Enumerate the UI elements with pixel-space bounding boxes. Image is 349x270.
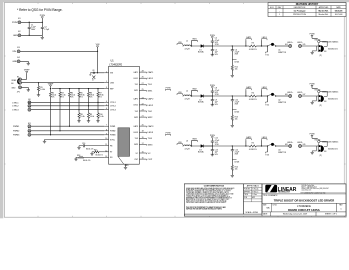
svg-text:7: 7 — [106, 125, 107, 127]
svg-text:8: 8 — [106, 129, 107, 131]
capacitor C5 ch1 — [211, 46, 213, 50]
turret CTRL1 — [28, 101, 31, 104]
capacitor C13 ch3 — [211, 146, 213, 150]
wire CTRL3 — [31, 109, 104, 111]
svg-text:1210: 1210 — [215, 144, 219, 146]
svg-text:APPROVED: APPROVED — [319, 6, 329, 9]
svg-text:10.0k: 10.0k — [99, 116, 103, 118]
transistor M1 — [317, 45, 319, 52]
transistor Q2 — [271, 93, 274, 96]
capacitor C8 DNI cross — [92, 76, 95, 79]
net flag TG1 at Q — [267, 46, 269, 52]
svg-text:1st Prototype: 1st Prototype — [293, 9, 305, 12]
turret PWM3 — [28, 133, 31, 136]
svg-text:OVP: OVP — [148, 159, 153, 161]
svg-text:GND: GND — [12, 61, 17, 63]
svg-text:L3: L3 — [186, 140, 188, 142]
svg-text:2.2µF: 2.2µF — [44, 29, 50, 31]
wire VIN rail — [20, 50, 97, 52]
svg-text:80.6k 1%: 80.6k 1% — [83, 160, 91, 162]
svg-text:E16: E16 — [285, 94, 288, 96]
svg-text:1.00k: 1.00k — [40, 89, 45, 91]
turret E1 PVIN — [18, 21, 21, 24]
svg-text:www.linear.com: www.linear.com — [302, 189, 313, 191]
svg-text:1%: 1% — [52, 97, 55, 99]
diode D4 gate ch1 — [318, 40, 320, 42]
wire R4 down — [69, 97, 71, 126]
svg-text:REV.: REV. — [339, 204, 343, 206]
svg-text:PVIN: PVIN — [210, 35, 215, 37]
ground below R14 — [231, 174, 234, 176]
svg-text:CAP2: CAP2 — [148, 98, 154, 101]
svg-text:R3: R3 — [252, 42, 254, 44]
svg-text:Wednesday, January 21, 2009: Wednesday, January 21, 2009 — [283, 214, 307, 216]
net flag SW2 stub — [191, 91, 193, 97]
svg-text:PCB: PCB — [244, 197, 247, 199]
ground M2 gate — [315, 96, 317, 101]
turret E3 VIN — [17, 50, 20, 53]
svg-text:L2: L2 — [186, 90, 188, 92]
turret LED3- — [299, 145, 302, 148]
capacitor C10 ch2 — [231, 96, 233, 100]
svg-text:LED1-: LED1- — [297, 42, 303, 44]
svg-text:B230A: B230A — [198, 51, 204, 54]
svg-text:SW1: SW1 — [148, 90, 154, 92]
svg-text:E14: E14 — [285, 44, 288, 46]
wire LED- to M ch2 — [302, 95, 319, 97]
turret CTRL3 — [28, 108, 31, 111]
ground at E7 — [27, 89, 30, 91]
net flag PVIN right ch3 — [311, 135, 313, 137]
wire LED- to M ch1 — [302, 45, 319, 47]
wire sense to Q ch1 — [256, 45, 267, 47]
svg-text:E2: E2 — [18, 31, 20, 33]
ground below C2 — [41, 35, 43, 37]
svg-text:LED2-: LED2- — [297, 92, 303, 94]
wire Q to LED+ ch2 — [276, 95, 289, 97]
svg-text:CAP1: CAP1 — [246, 36, 252, 39]
svg-text:1%: 1% — [99, 97, 102, 99]
net flag CAP1 — [246, 39, 252, 40]
ground M3 gate — [315, 146, 317, 151]
svg-text:PVIN: PVIN — [310, 34, 315, 36]
svg-text:LED3: LED3 — [262, 137, 268, 139]
svg-text:Si2343CDS-T1: Si2343CDS-T1 — [328, 148, 338, 150]
ground below R12 — [231, 74, 234, 76]
svg-text:C16: C16 — [82, 143, 85, 145]
revision history table — [268, 3, 346, 17]
ground below C9 — [211, 103, 214, 105]
svg-text:SW2: SW2 — [134, 117, 138, 119]
wire R3 down — [59, 97, 61, 131]
svg-text:IC NO.: IC NO. — [273, 204, 278, 206]
ground below C13 — [211, 153, 214, 155]
wire Q to LED+ ch1 — [276, 45, 289, 47]
svg-text:12: 12 — [105, 150, 107, 152]
svg-text:E11: E11 — [28, 123, 31, 125]
svg-text:0.20Ω 1%: 0.20Ω 1% — [249, 149, 257, 151]
svg-text:LED3: LED3 — [148, 132, 154, 134]
svg-text:LED3: LED3 — [235, 162, 240, 164]
ground below U1 — [124, 166, 127, 168]
svg-text:* Refer to QSG for PVIN Range.: * Refer to QSG for PVIN Range. — [17, 8, 63, 12]
svg-text:SW3: SW3 — [134, 144, 138, 146]
svg-text:19: 19 — [142, 137, 144, 139]
svg-text:PVIN: PVIN — [166, 133, 171, 135]
svg-text:PVIN: PVIN — [210, 85, 215, 87]
svg-text:PVIN: PVIN — [166, 88, 171, 90]
capacitor C14 ch3 — [231, 146, 233, 150]
via pad C8 — [93, 72, 95, 74]
transistor Q3 — [271, 143, 274, 146]
svg-text:LED3-: LED3- — [297, 142, 303, 144]
svg-text:80.6k 1%: 80.6k 1% — [86, 148, 94, 150]
svg-text:LED1: LED1 — [148, 78, 154, 80]
LT logo and address — [265, 185, 277, 193]
capacitor C9 ch2 — [211, 96, 213, 100]
ground below R13 — [231, 124, 234, 126]
svg-text:FMMT718: FMMT718 — [278, 102, 286, 104]
turret E4 GND — [17, 60, 20, 63]
svg-text:100V: 100V — [31, 29, 36, 31]
svg-text:10-21-08: 10-21-08 — [335, 14, 343, 16]
svg-text:4.7µH: 4.7µH — [184, 99, 190, 101]
net flag LED3 right — [262, 139, 268, 140]
svg-text:22: 22 — [142, 103, 144, 105]
svg-text:16: 16 — [142, 158, 144, 160]
ground at E4 — [27, 62, 30, 64]
svg-text:PVIN: PVIN — [210, 135, 215, 137]
turret LED1+ — [289, 45, 292, 48]
net flag LED2 right — [262, 89, 268, 90]
svg-text:L1: L1 — [186, 40, 188, 42]
inductor L1 — [184, 45, 191, 46]
capacitor C4 ch1 — [211, 39, 213, 42]
svg-text:C8: C8 — [92, 70, 94, 72]
svg-text:0.20Ω 1%: 0.20Ω 1% — [249, 49, 257, 51]
svg-text:FMMT718: FMMT718 — [278, 52, 286, 54]
svg-text:1%: 1% — [90, 97, 93, 99]
svg-text:10.0k: 10.0k — [80, 116, 84, 118]
svg-text:SCALE = NONE: SCALE = NONE — [246, 211, 259, 214]
svg-text:LED3: LED3 — [134, 132, 139, 134]
svg-text:PVIN: PVIN — [310, 84, 315, 86]
turret E7 GND — [19, 86, 22, 89]
inductor L2 — [184, 95, 191, 96]
net flag PVIN ch1 — [211, 37, 213, 39]
approvals column — [244, 184, 263, 214]
svg-text:3: 3 — [106, 87, 107, 89]
inductor L3 — [184, 145, 191, 146]
svg-text:SHEET 1 OF 1: SHEET 1 OF 1 — [325, 214, 337, 216]
wire Q to LED+ ch3 — [276, 145, 289, 147]
capacitor C12 ch3 — [211, 139, 213, 142]
turret PWM2 — [28, 129, 31, 132]
svg-text:17: 17 — [142, 143, 144, 145]
svg-text:15: 15 — [142, 152, 144, 154]
svg-text:E4: E4 — [17, 57, 19, 59]
svg-text:B230A: B230A — [198, 101, 204, 104]
svg-text:PVIN: PVIN — [310, 134, 315, 136]
svg-text:E6: E6 — [11, 83, 13, 85]
svg-text:SIZE: SIZE — [263, 204, 266, 206]
svg-text:M. Nelson: M. Nelson — [252, 191, 258, 193]
svg-text:TG2: TG2 — [265, 104, 269, 106]
wire diode to caps ch3 — [204, 145, 233, 147]
net flag CAP3 — [246, 139, 252, 140]
svg-text:10k: 10k — [235, 119, 238, 121]
net flag SW2 mid — [166, 134, 171, 135]
wire E4 to ground — [20, 60, 28, 62]
svg-text:VIN: VIN — [96, 44, 100, 46]
svg-text:20: 20 — [142, 125, 144, 127]
svg-text:1%: 1% — [61, 97, 64, 99]
svg-text:27: 27 — [142, 83, 144, 85]
svg-text:PCB DES.: PCB DES. — [244, 188, 251, 190]
svg-text:1%: 1% — [71, 97, 74, 99]
svg-text:13: 13 — [105, 156, 107, 158]
resistor R1 — [38, 83, 40, 87]
resistor R10 — [97, 102, 99, 112]
U1 exposed pad — [118, 128, 130, 157]
turret PWM1 — [28, 125, 31, 128]
net flag TG3 at Q — [267, 146, 269, 152]
svg-text:GND: GND — [13, 35, 18, 37]
svg-text:18: 18 — [142, 131, 144, 133]
svg-text:REVISION HISTORY: REVISION HISTORY — [296, 3, 319, 6]
ground below R9 — [87, 120, 90, 122]
diode D2 — [201, 95, 204, 98]
svg-text:10k: 10k — [235, 69, 238, 71]
svg-text:R18: R18 — [77, 155, 80, 157]
wire E7 to ground — [22, 86, 29, 88]
svg-text:VREF: VREF — [48, 83, 54, 85]
resistor R17 RT — [92, 151, 94, 153]
net flag LED2 col — [232, 110, 236, 111]
svg-text:CTRL2: CTRL2 — [110, 106, 116, 108]
title rows — [262, 193, 346, 195]
svg-text:R4: R4 — [252, 92, 254, 94]
ground below R1 — [37, 94, 40, 96]
diode D3 — [201, 145, 204, 148]
svg-text:VIN: VIN — [12, 51, 16, 53]
net flag PVIN right ch2 — [311, 85, 313, 87]
outer margin left — [0, 0, 3, 218]
svg-text:FMMT718: FMMT718 — [278, 152, 286, 154]
svg-text:R17: R17 — [94, 149, 97, 151]
net flag CAP2 — [246, 89, 252, 90]
ground below C5 — [211, 53, 214, 55]
svg-text:5: 5 — [106, 104, 107, 106]
svg-text:CTRL2: CTRL2 — [12, 106, 19, 108]
drawing frame — [4, 3, 346, 218]
svg-text:26: 26 — [142, 77, 144, 79]
turret LED2- — [299, 95, 302, 98]
svg-text:LED2: LED2 — [134, 105, 139, 107]
svg-text:24: 24 — [142, 97, 144, 99]
turret LED2+ — [289, 95, 292, 98]
svg-text:LED1: LED1 — [134, 78, 139, 80]
net flag LED3 col — [232, 160, 236, 161]
svg-text:LED2+: LED2+ — [287, 92, 294, 94]
capacitor C8 ch2 — [211, 89, 213, 92]
resistor R7 — [97, 89, 99, 93]
net flag VREF — [26, 71, 28, 73]
svg-text:PWM3: PWM3 — [110, 135, 115, 137]
resistor R6 — [88, 89, 90, 93]
wire R6 down — [88, 97, 90, 106]
net flag SW1 mid — [166, 89, 171, 90]
svg-text:28: 28 — [142, 71, 144, 73]
wire sense to Q ch3 — [256, 145, 267, 147]
resistor R5 sense ch3 — [249, 145, 256, 147]
svg-text:25: 25 — [142, 89, 144, 91]
svg-text:CAP1: CAP1 — [148, 71, 154, 74]
resistor R4 — [69, 89, 71, 93]
wire R2 down — [50, 97, 52, 135]
svg-text:SW2: SW2 — [148, 117, 154, 119]
net flag LED1 right — [262, 39, 268, 40]
svg-text:PWM1: PWM1 — [13, 126, 20, 128]
resistor R3 — [59, 89, 61, 93]
svg-text:CTRL3: CTRL3 — [110, 110, 116, 112]
svg-text:9: 9 — [106, 133, 107, 135]
resistor R5 — [78, 89, 80, 93]
svg-text:PVIN*: PVIN* — [12, 22, 18, 24]
svg-text:JP1: JP1 — [17, 92, 20, 94]
svg-text:DESCRIPTION: DESCRIPTION — [294, 7, 306, 9]
svg-text:CAP2: CAP2 — [133, 98, 138, 101]
wire to sense ch1 — [232, 45, 249, 47]
turret E5 VREF — [19, 78, 22, 81]
svg-text:08-05-08: 08-05-08 — [335, 10, 343, 12]
svg-text:E1: E1 — [18, 18, 20, 20]
turret CTRL2 — [28, 104, 31, 107]
svg-text:CAP3: CAP3 — [148, 125, 154, 128]
svg-text:J. Chen: J. Chen — [252, 194, 257, 196]
ground at SYNC — [43, 140, 46, 142]
svg-text:E10: E10 — [28, 107, 31, 109]
diode D5 gate ch2 — [318, 90, 320, 92]
net flag PVIN right ch1 — [311, 35, 313, 37]
svg-text:CUSTOMER NOTICE: CUSTOMER NOTICE — [204, 186, 225, 188]
svg-text:VIN: VIN — [178, 142, 182, 144]
ground M1 gate — [315, 46, 317, 51]
capacitor C1 — [28, 22, 30, 27]
ground below R8 — [77, 120, 80, 122]
svg-text:CAP3: CAP3 — [133, 125, 138, 128]
svg-text:CTRL3: CTRL3 — [12, 110, 19, 112]
wire diode to caps ch1 — [204, 45, 233, 47]
svg-text:11: 11 — [105, 144, 107, 146]
svg-text:TG3: TG3 — [135, 138, 139, 140]
wire E5 to flag — [22, 78, 27, 80]
wire PWM2 — [31, 130, 104, 132]
svg-text:Si2343CDS-T1: Si2343CDS-T1 — [328, 48, 338, 50]
svg-text:2: 2 — [106, 71, 107, 73]
svg-text:TG1: TG1 — [265, 54, 269, 56]
svg-text:E13: E13 — [28, 132, 31, 134]
svg-text:E12: E12 — [28, 128, 31, 130]
svg-text:23: 23 — [142, 110, 144, 112]
wire to sense ch2 — [232, 95, 249, 97]
net flag SW1 stub — [191, 41, 193, 47]
wire diode to caps ch2 — [204, 95, 233, 97]
svg-text:TECHNOLOGY: TECHNOLOGY — [278, 192, 291, 194]
svg-text:PWM3: PWM3 — [13, 135, 20, 137]
wire PWM3 — [31, 134, 104, 136]
resistor R3 sense ch1 — [249, 45, 256, 47]
wire input ch3 — [183, 145, 184, 147]
svg-text:VIN: VIN — [178, 92, 182, 94]
resistor R12 ch1 — [231, 60, 233, 66]
svg-text:PRODUCTION: PRODUCTION — [293, 14, 306, 16]
svg-text:4.7: 4.7 — [92, 80, 94, 82]
svg-text:LED2: LED2 — [148, 105, 154, 107]
outer margin top — [0, 0, 349, 2]
diode D1 — [201, 45, 204, 48]
svg-text:LED3+: LED3+ — [287, 142, 294, 144]
wire CTRL1 — [31, 101, 104, 103]
wire REF rail — [52, 88, 105, 90]
svg-text:1210: 1210 — [215, 44, 219, 46]
wire sense to Q ch2 — [256, 95, 267, 97]
turret LED3+ — [289, 145, 292, 148]
resistor R2 — [50, 89, 52, 93]
svg-text:CAP1: CAP1 — [133, 71, 138, 74]
svg-text:4.7µH: 4.7µH — [184, 49, 190, 51]
svg-text:4: 4 — [106, 101, 107, 103]
svg-text:LED2: LED2 — [262, 87, 268, 89]
svg-text:6: 6 — [106, 108, 107, 110]
svg-text:VIN: VIN — [178, 42, 182, 44]
svg-text:21: 21 — [142, 116, 144, 118]
title block outline — [184, 184, 346, 216]
resistor R4 sense ch2 — [249, 95, 256, 97]
net flag PVIN ch2 — [211, 87, 213, 89]
svg-text:B230A: B230A — [198, 151, 204, 154]
turret LED1- — [299, 45, 302, 48]
svg-text:10: 10 — [105, 138, 107, 140]
diode D6 gate ch3 — [318, 140, 320, 142]
wire to sense ch3 — [232, 145, 249, 147]
wire input ch2 — [183, 95, 184, 97]
svg-text:1%: 1% — [80, 97, 83, 99]
svg-text:CTRL1: CTRL1 — [110, 102, 116, 104]
svg-text:80.6k 1%: 80.6k 1% — [96, 154, 104, 156]
svg-text:DEMO CIRCUIT 1465A: DEMO CIRCUIT 1465A — [288, 208, 321, 212]
net flag SW3 stub — [191, 141, 193, 147]
svg-text:APPROVALS: APPROVALS — [247, 184, 260, 187]
svg-text:E8: E8 — [28, 99, 30, 101]
svg-text:PWM1: PWM1 — [110, 126, 115, 128]
svg-text:PVIN: PVIN — [40, 15, 46, 17]
svg-text:Market Rel.: Market Rel. — [318, 9, 329, 12]
net flag VIN ch1 — [177, 44, 183, 45]
wire input ch1 — [183, 45, 184, 47]
resistor R14 ch3 — [231, 160, 233, 166]
svg-text:GND: GND — [11, 88, 16, 90]
resistor R13 ch2 — [231, 110, 233, 116]
wire R5 down — [78, 97, 80, 109]
wire PWM1 — [31, 125, 104, 127]
transistor M3 — [317, 145, 319, 152]
capacitor C6 ch1 — [231, 46, 233, 50]
svg-text:CTRL1: CTRL1 — [12, 102, 19, 104]
wire VIN rail down to U1 — [97, 51, 99, 73]
resistor R9 — [88, 106, 90, 113]
svg-text:E18: E18 — [285, 144, 288, 146]
